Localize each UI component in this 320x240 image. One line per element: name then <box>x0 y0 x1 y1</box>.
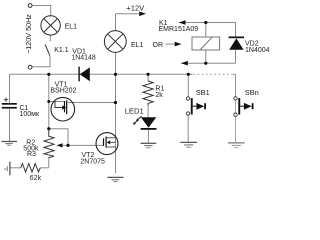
svg-text:2N7075: 2N7075 <box>80 159 105 166</box>
svg-text:100мк: 100мк <box>20 111 40 118</box>
svg-text:LED1: LED1 <box>125 106 144 115</box>
svg-text:1N4148: 1N4148 <box>71 55 96 62</box>
svg-text:1N4004: 1N4004 <box>245 47 270 54</box>
svg-text:EMR151A09: EMR151A09 <box>159 26 199 33</box>
svg-text:SBn: SBn <box>245 88 259 97</box>
svg-text:~120V 50Hz: ~120V 50Hz <box>24 14 33 54</box>
svg-text:OR: OR <box>153 42 164 49</box>
svg-text:BSH202: BSH202 <box>50 88 76 95</box>
svg-text:+12V: +12V <box>126 3 145 12</box>
svg-text:62k: 62k <box>30 175 42 182</box>
svg-text:SB1: SB1 <box>196 88 210 97</box>
svg-text:EL1: EL1 <box>131 42 144 49</box>
svg-text:2k: 2k <box>155 92 163 99</box>
svg-text:EL1: EL1 <box>65 24 78 31</box>
svg-text:R3: R3 <box>27 151 36 158</box>
svg-text:K1.1: K1.1 <box>54 47 69 54</box>
